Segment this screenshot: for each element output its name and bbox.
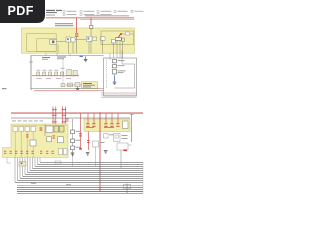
component boxes in panel: [30, 137, 64, 146]
legend row 1: [63, 10, 144, 12]
splice S3: [68, 83, 73, 87]
fuse block components in box: [113, 60, 126, 75]
wire label 430: [66, 185, 71, 186]
wire: [75, 39, 86, 41]
connector C103: [86, 36, 92, 41]
lower bus group: [17, 185, 143, 193]
ground G6: [104, 150, 108, 153]
rail labels: [12, 120, 43, 121]
horizontal bus lines: [18, 162, 144, 180]
wire: [114, 74, 116, 76]
sensor component: [75, 83, 80, 87]
splice components on red wire: [37, 68, 78, 76]
title text block: [46, 10, 62, 16]
splice S2: [61, 84, 65, 87]
note box: [82, 82, 98, 89]
blue wire: [114, 76, 116, 82]
ignition switch SW1: [112, 33, 125, 43]
ground G2: [76, 87, 80, 91]
middle column components: [71, 119, 81, 157]
wire: [57, 41, 67, 43]
pink feed wire: [34, 90, 104, 92]
PDF badge: [0, 0, 45, 23]
wire: [66, 84, 75, 86]
red feed wire B2: [79, 114, 82, 150]
wire loop in box: [115, 50, 135, 88]
wire: [109, 54, 111, 61]
ground G4: [71, 153, 75, 156]
stub wires to bus: [46, 54, 70, 56]
bus lines right of junction box: [101, 93, 137, 97]
contact S1: [126, 32, 130, 35]
right margin wire: [130, 114, 135, 142]
fuses in right box: [86, 123, 119, 126]
inner compartment outline: [27, 34, 57, 52]
wire y182: [15, 181, 143, 183]
pink header rule: [46, 17, 135, 19]
connector C104: [92, 37, 96, 41]
fuse F11 double red drop: [55, 107, 69, 127]
top fuse box panel: [22, 28, 135, 53]
wires under switch: [114, 40, 123, 58]
right fuse box section 2: [84, 119, 130, 132]
connector labels under bus: [42, 57, 66, 60]
connector C101: [50, 40, 57, 45]
red distribution wire: [32, 75, 79, 77]
battery feed B+: [40, 124, 46, 136]
connector in right box: [123, 121, 129, 129]
panel internal wires: [58, 40, 103, 53]
gray feed wire: [31, 88, 104, 90]
fuse F12: [26, 135, 29, 138]
blue wire segment: [80, 56, 84, 57]
right end connectors: [124, 162, 144, 193]
relay K5: [114, 134, 132, 146]
connector box lower right: [117, 143, 128, 150]
left fuse panel section 2: [3, 124, 69, 158]
relay box U1: [101, 31, 134, 45]
fuse drops into box: [88, 114, 118, 124]
connector stub: [55, 161, 61, 164]
labels under red wire: [37, 77, 72, 80]
components below right box: [87, 132, 90, 151]
fuse F10 double red drop: [52, 107, 57, 127]
relay K4: [93, 141, 105, 147]
ground G3: [113, 82, 117, 85]
fuse labels: [86, 126, 114, 129]
fuse F1 red drop: [75, 18, 78, 53]
small module under panel: [19, 162, 26, 167]
connector row in panel: [13, 127, 36, 158]
junction box outline: [104, 58, 137, 96]
nested compartment: [37, 38, 56, 51]
bottom fuse row: [4, 151, 54, 154]
dashed internal wire: [106, 58, 108, 88]
ground G1: [84, 56, 88, 62]
wire: [121, 33, 134, 35]
connector C102: [66, 37, 71, 42]
fuse F2 red drop: [90, 18, 93, 36]
label above fuse panel: [55, 23, 74, 29]
feed wire: [62, 58, 64, 84]
component boxes bottom row: [59, 149, 68, 155]
fuse F13: [53, 136, 56, 139]
node stub left margin: [2, 87, 7, 90]
svg-text:PDF: PDF: [8, 4, 34, 18]
small module M1: [104, 134, 116, 139]
left trunk wire: [29, 56, 33, 91]
legend row 2: [63, 14, 129, 17]
component M2: [100, 37, 105, 40]
main red feed wire: [99, 113, 101, 192]
ground G5: [86, 152, 90, 155]
pink power rail section 2: [11, 112, 143, 114]
red tap: [124, 150, 128, 152]
middle drops: [73, 147, 122, 168]
connector C201: [46, 126, 53, 133]
relay K3: [60, 126, 65, 132]
bus below panel: [31, 55, 104, 57]
gray rail: [11, 118, 130, 119]
wire drops from left panel staircase: [18, 158, 41, 181]
relay K2: [54, 126, 59, 132]
left stub elbow: [7, 158, 11, 164]
